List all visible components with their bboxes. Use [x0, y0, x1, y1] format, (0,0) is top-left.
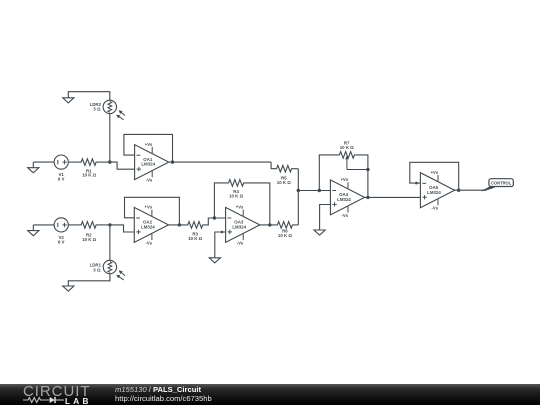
svg-text:-Vs: -Vs [145, 240, 152, 245]
voltage source V1 [54, 155, 68, 169]
resistor R5 [276, 165, 292, 172]
svg-text:-Vs: -Vs [146, 178, 153, 183]
svg-text:6 V: 6 V [58, 239, 65, 244]
svg-text:LM324: LM324 [141, 162, 155, 167]
wire [68, 224, 81, 226]
svg-text:10 K Ω: 10 K Ω [82, 173, 96, 178]
wire [169, 161, 271, 163]
ground [28, 225, 39, 236]
wire [364, 196, 420, 198]
photoresistor LDR1 [103, 260, 125, 280]
node OA1 out [171, 160, 174, 163]
svg-text:10 K Ω: 10 K Ω [229, 194, 243, 199]
op-amp OA1 [135, 142, 169, 183]
wire [68, 274, 110, 286]
op-amp OA3 [226, 205, 260, 246]
node OA2 out [178, 223, 181, 226]
resistor R4 [228, 180, 244, 187]
wire [292, 168, 298, 170]
op-amp OA4 [330, 177, 364, 218]
svg-text:-Vs: -Vs [237, 240, 244, 245]
wire [214, 183, 228, 218]
wire [68, 92, 110, 101]
svg-text:3 Ω: 3 Ω [93, 267, 101, 272]
wire [125, 197, 180, 225]
svg-text:CONTROL: CONTROL [491, 180, 512, 185]
wire [68, 161, 81, 163]
svg-text:+Vs: +Vs [431, 170, 439, 175]
ground [63, 98, 74, 103]
svg-text:10 K Ω: 10 K Ω [188, 236, 202, 241]
svg-text:+Vs: +Vs [341, 177, 349, 182]
ground [209, 258, 220, 263]
svg-text:LM324: LM324 [232, 225, 246, 230]
wire [271, 162, 276, 169]
svg-text:10 K Ω: 10 K Ω [340, 145, 354, 150]
wire [110, 162, 135, 169]
wire [410, 162, 459, 190]
voltage source V2 [54, 218, 68, 232]
svg-text:-Vs: -Vs [432, 206, 439, 211]
svg-text:LM324: LM324 [337, 197, 351, 202]
svg-text:10 K Ω: 10 K Ω [278, 233, 292, 238]
wire [33, 161, 54, 163]
resistor R7 [339, 152, 356, 159]
label LDR2 [90, 102, 102, 112]
wire [215, 232, 226, 258]
node B [108, 223, 111, 226]
wire [96, 161, 110, 163]
wire [204, 218, 225, 225]
node D [297, 189, 300, 192]
label R4 [229, 189, 243, 198]
wire [347, 169, 368, 171]
wire [109, 225, 111, 260]
svg-text:+Vs: +Vs [145, 142, 153, 147]
resistor R6 [277, 222, 293, 229]
wire [244, 183, 270, 225]
label R5 [277, 175, 291, 184]
svg-text:10 K Ω: 10 K Ω [82, 237, 96, 242]
label R2 [82, 233, 96, 242]
label R7 [340, 141, 354, 150]
wire [298, 190, 330, 192]
ground [28, 162, 39, 173]
wire [33, 224, 54, 226]
svg-text:LM324: LM324 [427, 190, 441, 195]
ground [63, 286, 74, 291]
wire [320, 205, 331, 231]
wire [293, 224, 299, 226]
label V2 [58, 235, 65, 244]
wire [169, 224, 187, 226]
photoresistor LDR2 [103, 100, 125, 120]
label R3 [188, 232, 202, 241]
node OA4 out [366, 196, 369, 199]
wire [454, 189, 486, 191]
pin dot [415, 182, 418, 185]
wire [124, 134, 173, 162]
label LDR1 [90, 263, 102, 273]
node OA5 out [457, 189, 460, 192]
node E [318, 189, 321, 192]
wire [96, 224, 110, 226]
flag CONTROL [482, 179, 514, 192]
node C [213, 216, 216, 219]
node F [366, 168, 369, 171]
resistor R2 [81, 222, 96, 229]
svg-text:+Vs: +Vs [145, 205, 153, 210]
label V1 [58, 172, 65, 181]
op-amp OA2 [134, 205, 168, 246]
node OA3 out [268, 223, 271, 226]
ground [314, 230, 325, 235]
wire [110, 225, 134, 232]
svg-text:-Vs: -Vs [342, 213, 349, 218]
wire [319, 155, 338, 191]
resistor R3 [186, 222, 204, 229]
wire [260, 224, 277, 226]
label R6 [278, 228, 292, 237]
wire [355, 155, 368, 198]
svg-text:+Vs: +Vs [236, 205, 244, 210]
svg-text:10 K Ω: 10 K Ω [277, 180, 291, 185]
resistor R1 [81, 159, 96, 166]
pin dot [221, 231, 224, 234]
svg-text:LM324: LM324 [141, 225, 155, 230]
label R1 [82, 168, 96, 177]
wire [109, 114, 111, 163]
svg-text:6 V: 6 V [58, 177, 65, 182]
pot wiper [345, 155, 348, 169]
node A [108, 160, 111, 163]
wire [297, 169, 299, 225]
svg-text:3 Ω: 3 Ω [93, 107, 101, 112]
op-amp OA5 [420, 170, 454, 211]
